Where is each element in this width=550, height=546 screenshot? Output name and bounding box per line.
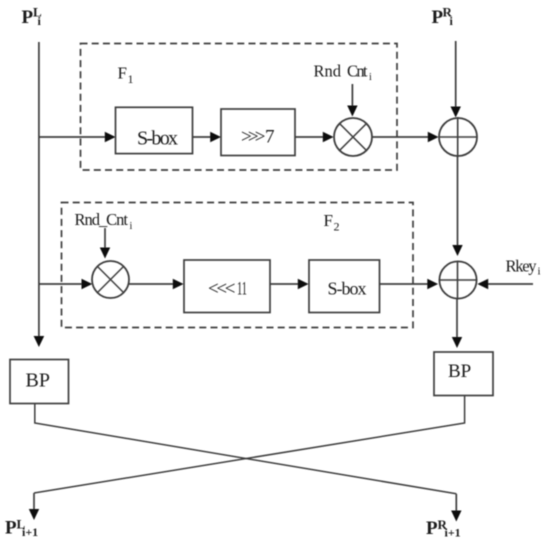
arrowhead into rot11 [173, 279, 184, 289]
wire S-box to rot7 [193, 136, 212, 138]
node PLi+1 label [5, 517, 38, 540]
wire BP left output crossing to right [35, 404, 457, 494]
block BP right [434, 352, 493, 396]
block rotate left 11 [184, 260, 270, 313]
xor node XOR2 (circle with plus) [439, 261, 476, 299]
svg-text:>>>: >>> [241, 127, 266, 148]
label Rkey i [506, 257, 541, 278]
svg-text:S-box: S-box [137, 128, 178, 150]
svg-text:Rnd_Cnt: Rnd_Cnt [75, 210, 129, 229]
svg-text:S-box: S-box [328, 279, 367, 299]
node PRi+1 label [426, 517, 461, 540]
arrowhead into S-box F1 [105, 132, 116, 142]
svg-text:7: 7 [265, 127, 275, 148]
svg-text:Rkey: Rkey [506, 257, 538, 276]
svg-text:<<<: <<< [208, 279, 236, 300]
svg-text:i: i [450, 14, 454, 28]
svg-text:F: F [324, 211, 333, 230]
wire XOR1 down to XOR2 [457, 156, 459, 246]
wire left vertical from PLi [38, 42, 40, 337]
multiplier node X1 (circle with X) [334, 118, 372, 156]
wire X1 to XOR1 [372, 136, 429, 138]
arrowhead into X2 [82, 279, 93, 289]
label F1 [118, 64, 134, 87]
svg-text:11: 11 [237, 279, 247, 300]
svg-text:BP: BP [448, 361, 471, 382]
wire Rnd_Cnt arrow to multiplier X2 [104, 228, 106, 248]
wire Rkey into XOR2 (leftward arrow) [488, 283, 534, 285]
svg-text:P: P [5, 518, 17, 539]
svg-text:P: P [22, 7, 34, 28]
svg-text:2: 2 [334, 220, 340, 234]
node PLi label [22, 5, 43, 29]
svg-text:i+1: i+1 [22, 525, 38, 539]
wire down to PRi+1 [455, 494, 457, 511]
arrowhead to PRi+1 [451, 511, 461, 522]
multiplier node X2 (circle with X) [92, 261, 129, 298]
arrowhead into XOR1 [428, 132, 439, 142]
wire XOR2 down to BP right [456, 299, 458, 338]
block S-box (F1) [116, 107, 193, 153]
arrowhead into rot7 [210, 132, 221, 142]
wire down to PLi+1 [33, 493, 35, 510]
arrowhead into BP right [452, 337, 462, 348]
svg-text:1: 1 [128, 72, 134, 86]
svg-text:i+1: i+1 [445, 526, 461, 540]
block S-box (F2) [309, 260, 380, 313]
wire rot11 to S-box F2 [270, 283, 299, 285]
svg-text:i: i [369, 72, 372, 83]
dashed box F1 [81, 44, 398, 171]
dashed box F2 [62, 203, 414, 328]
node PRi label [432, 5, 454, 29]
arrowhead into X1 [347, 106, 357, 117]
svg-text:BP: BP [26, 370, 50, 392]
arrowhead to PLi+1 [29, 509, 39, 520]
wire PRi vertical [455, 41, 457, 107]
arrowhead into multiplier X1 [323, 132, 334, 142]
wire row2: PLi branch to X2 [39, 283, 82, 285]
label Rnd Cnt i (F1) [314, 62, 373, 84]
wire X2 to rot11 [129, 283, 174, 285]
arrowhead into X2 [100, 248, 110, 259]
svg-text:i: i [538, 266, 541, 278]
block rotate right 7 [221, 109, 295, 156]
arrowhead into BP left [34, 336, 45, 347]
wire row1: PLi branch to S-box [39, 136, 106, 138]
arrowhead into S-box F2 [298, 279, 309, 289]
wire Rnd Cnt arrow to multiplier X1 [351, 84, 353, 106]
svg-text:Cnt: Cnt [347, 62, 368, 81]
label F2 [324, 211, 340, 234]
svg-text:Rnd: Rnd [314, 62, 342, 81]
svg-text:F: F [118, 64, 127, 83]
label Rnd_Cnt i (F2) [75, 210, 133, 232]
block BP left [10, 360, 69, 404]
svg-text:i: i [130, 221, 133, 232]
xor node XOR1 (circle with plus) [439, 117, 477, 157]
svg-text:P: P [426, 518, 438, 539]
arrowhead into XOR2 right [477, 279, 488, 289]
wire S-box F2 to XOR2 [380, 283, 429, 285]
wire rot7 to multiplier X1 [295, 136, 324, 138]
arrowhead into XOR2 [452, 245, 462, 256]
arrowhead into XOR1 [451, 107, 461, 118]
arrowhead into XOR2 [427, 279, 438, 289]
wire BP right output crossing to left [34, 396, 465, 494]
